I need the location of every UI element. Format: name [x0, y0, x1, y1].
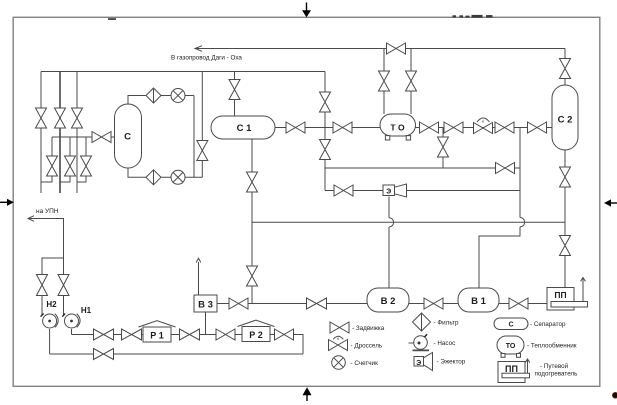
- valve P line 5: [275, 329, 294, 340]
- legend pump nozzle tick: [424, 334, 427, 337]
- legend throttle stem: [333, 336, 343, 340]
- svg-text:- Дроссель: - Дроссель: [351, 342, 383, 349]
- P2 box: [242, 327, 270, 342]
- wire: TO inlet drop left: [383, 49, 385, 115]
- wire: y168 line: [325, 167, 520, 169]
- legend PP box: [498, 362, 525, 383]
- legend ejector horn: [424, 353, 433, 371]
- svg-text:- Эжектор: - Эжектор: [437, 359, 466, 366]
- legend pump inlet line: [409, 342, 420, 344]
- svg-text:- Насос: - Насос: [434, 340, 456, 347]
- throttle valve body: [474, 123, 493, 134]
- wire: TO outlet row to C2: [416, 127, 553, 129]
- valve well 2: [55, 108, 66, 128]
- wire: hop over y222 at x520: [520, 218, 525, 227]
- P1 roof: [139, 321, 176, 327]
- pump H2 dot: [48, 320, 51, 323]
- wire: C1 bottom drop x252: [251, 139, 253, 304]
- wire: bottom process line B1-PP: [499, 303, 547, 305]
- valve TO drop left: [379, 71, 390, 91]
- wire: H1 suction: [63, 296, 65, 315]
- wire: bypass drop 1: [41, 137, 52, 182]
- svg-text:В газопровод Даги - Оха: В газопровод Даги - Оха: [171, 55, 242, 62]
- wire: inlet header y72: [41, 71, 325, 73]
- wire: hop over y222 at x389: [389, 218, 394, 227]
- arrow top (in): [306, 3, 308, 11]
- pump H1 crescent: [77, 314, 80, 328]
- wire: ejector suction: [325, 190, 383, 192]
- svg-text:на УПН: на УПН: [36, 208, 59, 215]
- wire: H2 suction: [41, 296, 43, 315]
- wire: x520 drop upper: [519, 128, 521, 218]
- svg-text:Э: Э: [386, 189, 391, 196]
- wire: bottom process line B2-B1: [409, 303, 458, 305]
- svg-text:- Задвижка: - Задвижка: [352, 325, 385, 332]
- valve C2 bottom: [560, 167, 571, 187]
- valve C1 top: [229, 80, 240, 100]
- pump H1 inlet tick: [62, 314, 65, 317]
- svg-text:С 1: С 1: [237, 123, 253, 134]
- legend ejector box: [414, 357, 424, 367]
- counter CT1 top: [171, 89, 185, 103]
- valve TO drop right: [406, 71, 417, 91]
- wire: PP stack arrow: [582, 278, 584, 302]
- valve H2 suction: [37, 275, 48, 296]
- wire: TO inlet drop right: [410, 49, 412, 115]
- valve row 5: [495, 122, 514, 133]
- valve P line 1: [94, 329, 114, 340]
- legend counter symbol: [332, 356, 346, 370]
- valve C1 drop upper: [247, 172, 258, 192]
- svg-text:В 3: В 3: [198, 300, 213, 311]
- valve before B2: [307, 298, 327, 309]
- TO foot left: [385, 136, 389, 140]
- wire: well line 1: [40, 72, 42, 194]
- svg-text:Р 2: Р 2: [249, 330, 263, 340]
- valve C2 line lower: [560, 236, 571, 256]
- wire: P measuring line y334: [72, 335, 304, 355]
- legend TO symbol: [497, 336, 524, 354]
- svg-text:Н2: Н2: [46, 300, 57, 309]
- legend throttle symbol: [329, 340, 348, 351]
- svg-text:C: C: [124, 132, 131, 143]
- legend pump dot: [418, 342, 421, 345]
- valve P line 2: [122, 329, 142, 340]
- vessel B2: [367, 288, 409, 312]
- svg-text:Э: Э: [416, 360, 421, 367]
- svg-text:- Путевой: - Путевой: [540, 362, 569, 370]
- wire: well line 3: [76, 72, 78, 194]
- wire: x443 drop: [442, 128, 444, 169]
- valve on gas export line: [387, 43, 406, 54]
- wire: B3 drain: [205, 312, 207, 335]
- ejector E box: [383, 185, 395, 196]
- throttle valve stem: [477, 118, 490, 123]
- svg-text:ПП: ПП: [554, 290, 566, 300]
- artifact dot bottom right: [612, 392, 617, 398]
- wire: C2 bottom line: [564, 150, 566, 288]
- wire: na UPN line: [28, 219, 64, 275]
- valve bypass 3: [81, 156, 92, 176]
- valve x325 upper: [320, 92, 331, 112]
- heat exchanger TO: [380, 114, 416, 136]
- wire: x520 drop lower to B1: [479, 227, 520, 288]
- wire: B3 vent line: [198, 262, 200, 295]
- vessel C: [115, 104, 142, 168]
- legend PP tube: [502, 373, 530, 378]
- valve before C2: [528, 122, 547, 133]
- counter CT2 bottom: [171, 170, 185, 184]
- wire: bottom process line B3-B2: [217, 303, 367, 305]
- valve y168 line: [496, 163, 515, 174]
- valve B3 outlet: [229, 298, 248, 309]
- wire: x325 drop line: [324, 72, 326, 191]
- wire: ejector outlet: [407, 190, 520, 192]
- wire: H1 discharge: [71, 329, 73, 335]
- wire: return line y354: [50, 353, 303, 355]
- svg-text:С 2: С 2: [558, 115, 573, 126]
- legend gate valve symbol: [330, 322, 349, 333]
- valve well 3: [72, 108, 83, 128]
- pump H2 crescent: [55, 314, 58, 328]
- vessel B3: [194, 295, 217, 312]
- svg-text:ПП: ПП: [505, 364, 518, 374]
- svg-text:В 1: В 1: [471, 296, 487, 307]
- valve bypass 2: [65, 156, 76, 176]
- svg-text:- Сепаратор: - Сепаратор: [530, 321, 566, 328]
- vessel C1: [211, 116, 275, 139]
- valve C1 drop lower: [247, 266, 258, 286]
- valve riser x202: [197, 141, 208, 161]
- wire: ejector drain to B2: [388, 227, 390, 288]
- P1 box: [143, 327, 171, 342]
- arrowhead B3 vent: [196, 258, 201, 262]
- artifact clipped text top right: [453, 15, 457, 17]
- pump H2 inlet tick: [41, 314, 44, 317]
- svg-text:Р 1: Р 1: [150, 331, 164, 341]
- valve x443 drop: [438, 137, 449, 157]
- valve well 1: [36, 108, 47, 128]
- pump H1 dot: [70, 320, 73, 323]
- valve return line: [94, 349, 114, 360]
- wire: C top gas line to meters: [128, 96, 194, 105]
- valve row 4: [444, 122, 463, 133]
- svg-text:ТО: ТО: [506, 343, 516, 350]
- svg-text:С: С: [508, 322, 513, 329]
- TO foot right: [406, 136, 410, 140]
- wire: riser x202 to header: [201, 72, 203, 178]
- vessel C2: [552, 85, 578, 150]
- valve C feed: [92, 132, 111, 143]
- wire: gas export header y48: [196, 48, 565, 50]
- wire: ejector drain upper: [388, 197, 390, 218]
- legend filter symbol: [413, 313, 431, 331]
- svg-text:подогреватель: подогреватель: [535, 371, 579, 378]
- pump H2 body: [43, 314, 57, 328]
- pump H1 body: [65, 314, 79, 328]
- filter F1 top: [146, 88, 161, 103]
- filter F2 bottom: [146, 170, 161, 185]
- valve row after TO: [420, 122, 439, 133]
- wire: bypass drop 3: [77, 137, 86, 182]
- arrow right (in): [611, 202, 617, 204]
- valve B2-B1: [424, 298, 443, 309]
- svg-text:- Теплообменник: - Теплообменник: [527, 342, 577, 350]
- P2 roof: [238, 320, 275, 326]
- ejector E horn: [395, 184, 407, 197]
- legend TO foot left: [501, 354, 505, 358]
- heater PP box: [547, 288, 574, 311]
- wire: bypass drop 2: [60, 137, 70, 182]
- arrowhead gas export (left): [195, 46, 202, 52]
- legend TO foot right: [517, 354, 521, 358]
- heater PP tube: [551, 302, 588, 308]
- svg-text:Н1: Н1: [81, 306, 92, 315]
- artifact dash top left: [108, 18, 116, 20]
- svg-text:- Счетчик: - Счетчик: [351, 360, 379, 367]
- wire: H2 discharge: [49, 329, 51, 354]
- arrow bottom (in): [306, 395, 308, 401]
- valve row 2 before TO: [333, 122, 352, 133]
- vessel B1: [458, 288, 499, 312]
- svg-text:Т О: Т О: [390, 123, 405, 133]
- svg-text:- Фильтр: - Фильтр: [434, 320, 459, 327]
- valve B1-PP: [509, 298, 528, 309]
- valve H1 suction: [58, 275, 69, 296]
- wire: pump header branch: [42, 258, 64, 275]
- arrow left (in): [0, 201, 7, 203]
- legend PP stack arrow: [525, 359, 530, 373]
- valve x325 lower: [320, 140, 331, 160]
- legend pump pedestal: [413, 349, 430, 351]
- wire: meter loop return: [193, 96, 195, 178]
- legend pump body: [414, 336, 428, 350]
- legend separator symbol: [494, 318, 528, 330]
- valve ejector suction: [334, 185, 353, 196]
- wire: separator C feed line y137: [52, 136, 115, 138]
- valve P line 4: [216, 329, 235, 340]
- valve C2 top: [560, 59, 571, 79]
- wire: C1 outlet row: [275, 127, 380, 129]
- wire: C bottom line to meters: [128, 168, 202, 177]
- arrowhead na UPN: [28, 216, 34, 222]
- valve bypass 1: [47, 156, 58, 176]
- valve P line 3: [180, 329, 200, 340]
- wire: well line 2 (heavy): [59, 72, 61, 194]
- valve row after C1: [286, 122, 305, 133]
- wire: C2 top riser: [564, 49, 566, 86]
- wire: y222 condensate line: [252, 221, 565, 223]
- wire: C1 top riser: [234, 72, 236, 117]
- arrowhead PP stack: [581, 278, 586, 282]
- svg-text:В 2: В 2: [381, 296, 396, 307]
